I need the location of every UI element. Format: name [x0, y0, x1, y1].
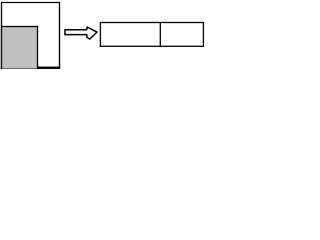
outer square bottom band: [1, 67, 60, 69]
two-cell rectangle: [100, 23, 203, 47]
cell divider: [159, 23, 161, 47]
gray square: [2, 27, 38, 70]
background: [0, 0, 205, 69]
arrow: [65, 27, 97, 39]
outer square: [2, 3, 60, 69]
